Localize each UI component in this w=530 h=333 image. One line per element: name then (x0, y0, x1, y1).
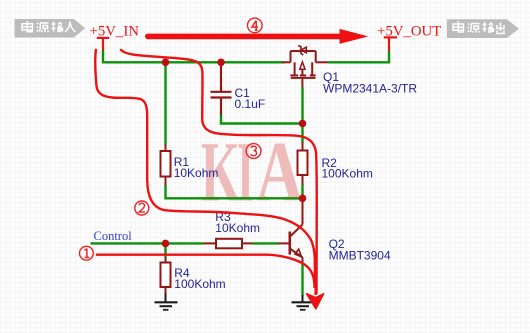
tag 电源输出 (447, 19, 519, 38)
svg-text:MMBT3904: MMBT3904 (329, 249, 391, 263)
capacitor C1 (211, 63, 232, 115)
svg-text:100Kohm: 100Kohm (322, 167, 373, 181)
wire R3 to Q2 base (252, 242, 279, 244)
wire Q2 emitter down (301, 264, 303, 296)
tag 电源输入 (15, 19, 86, 38)
junction node dot (rail/C1) (217, 59, 225, 67)
transistor Q2 (279, 201, 303, 265)
port +5V_IN (97, 38, 109, 51)
svg-text:0.1uF: 0.1uF (235, 97, 266, 111)
svg-text:10Kohm: 10Kohm (174, 166, 219, 180)
wire Q1 gate vertical (301, 87, 303, 143)
resistor R4 (161, 257, 171, 294)
junction node dot (control/R4) (162, 240, 170, 248)
svg-text:I: I (237, 124, 254, 220)
wire R1 top branch (164, 62, 166, 145)
wire R1 bottom to node (166, 185, 303, 199)
svg-text:10Kohm: 10Kohm (215, 221, 260, 235)
wire Control net (91, 242, 205, 244)
wire +5V_IN rail (103, 50, 284, 62)
svg-text:+5V_IN: +5V_IN (90, 23, 140, 39)
big red down arrow (314, 252, 316, 295)
svg-text:+5V_OUT: +5V_OUT (377, 23, 441, 39)
wire C1 bottom horizontal (221, 115, 303, 124)
circled number 4 (248, 18, 263, 33)
ground under R4 (155, 294, 178, 310)
annotation curve from +5V_IN via 2 to Q2 (95, 49, 315, 281)
resistor R3 (204, 239, 253, 249)
watermark KIA (201, 124, 303, 220)
annotation line from 1 to big arrow (96, 255, 315, 288)
wire R2 bottom (301, 184, 303, 199)
port +5V_OUT (384, 37, 397, 50)
junction node dot (R2/R1/collector) (299, 195, 307, 203)
wire R4 top (164, 243, 166, 257)
wire Q1 source to +5V_OUT (328, 50, 389, 62)
resistor R1 (161, 145, 171, 186)
junction node dot (rail/R1) (162, 59, 170, 67)
annotation curve from +5V_IN via 3 to big arrow (121, 49, 317, 294)
mosfet Q1 (283, 46, 329, 87)
circled number 1 (80, 246, 94, 260)
resistor R2 (298, 142, 308, 185)
circled number 3 (246, 144, 261, 159)
svg-text:Control: Control (94, 229, 133, 243)
junction node dot (gate/C1) (299, 120, 307, 128)
annotation big arrow 4 (148, 34, 341, 40)
ground under Q2 (292, 295, 315, 310)
svg-text:A: A (256, 124, 303, 220)
circled number 2 (135, 201, 149, 215)
svg-text:100Kohm: 100Kohm (174, 277, 225, 291)
svg-text:WPM2341A-3/TR: WPM2341A-3/TR (323, 82, 417, 96)
